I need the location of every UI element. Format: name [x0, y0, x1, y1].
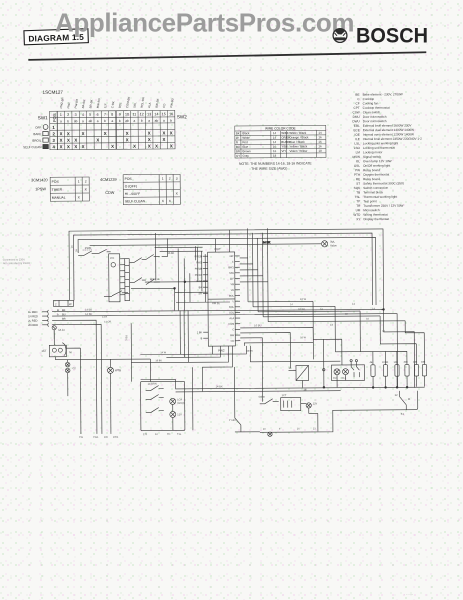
svg-text:OL: OL [356, 159, 360, 163]
wire drop 156 [155, 233, 157, 280]
svg-text:Test point: Test point [363, 199, 376, 203]
wire drop 168 [162, 238, 168, 256]
svg-text:POS: POS [125, 177, 133, 181]
svg-text:Black: Black [242, 131, 250, 135]
svg-text:PW2: PW2 [218, 349, 225, 353]
svg-text:b: b [170, 119, 172, 123]
svg-text:14 R: 14 R [102, 316, 107, 319]
svg-text:BR-BK: BR-BK [88, 99, 93, 108]
svg-text:16: 16 [318, 144, 322, 148]
selector switch table 1SCM127 [50, 110, 175, 149]
svg-text:CGM: CGM [228, 323, 234, 326]
clean switch table text [100, 177, 179, 204]
selector contacts top [130, 254, 160, 262]
svg-text:SELF CLEAN: SELF CLEAN [125, 199, 146, 203]
contact strip [125, 259, 130, 301]
svg-text:14 BU: 14 BU [85, 312, 92, 316]
svg-text:X: X [148, 131, 151, 136]
svg-text:Blue: Blue [242, 145, 248, 149]
wire mains row4 [68, 324, 102, 434]
svg-text:X: X [170, 143, 173, 148]
extra wire labels [102, 302, 386, 362]
svg-text:X: X [133, 144, 136, 149]
svg-text:WTB: WTB [115, 368, 121, 372]
svg-text:PW2B: PW2B [195, 255, 202, 258]
svg-text:4CM1239: 4CM1239 [100, 178, 116, 182]
svg-text:POS: POS [52, 113, 57, 122]
svg-text:2N RED: 2N RED [28, 323, 38, 327]
wire timer to drop [55, 348, 151, 435]
svg-text:10E: 10E [413, 361, 418, 364]
svg-text:Red: Red [242, 140, 248, 144]
svg-text:PTH: PTH [354, 173, 360, 177]
solenoid valve 3VL [321, 240, 337, 248]
Bosch logo (magneto armature symbol) [333, 28, 347, 42]
timer switch table 3CM1420 1PSW [50, 177, 89, 201]
fuse 1A [52, 326, 65, 340]
svg-text:a: a [82, 119, 84, 123]
svg-text:L: L [233, 300, 235, 303]
svg-text:2: 2 [169, 177, 171, 181]
svg-text:16: 16 [169, 112, 173, 116]
svg-text:X: X [155, 144, 158, 149]
svg-text:16: 16 [273, 149, 277, 153]
wire drop 234 [233, 367, 235, 412]
DIAGRAM 1.5 label box [24, 29, 88, 45]
svg-text:SOL: SOL [229, 311, 235, 314]
svg-text:X: X [148, 144, 151, 149]
svg-text:White / Black: White / Black [289, 131, 306, 135]
svg-text:BU: BU [236, 145, 240, 149]
svg-text:b: b [141, 119, 143, 123]
svg-text:X: X [74, 144, 77, 149]
svg-text:. .. ......: . .. ...... [404, 592, 413, 596]
BOSCH wordmark [356, 25, 428, 48]
svg-text:16: 16 [366, 318, 369, 321]
svg-text:a: a [148, 119, 150, 123]
svg-text:WIRE COLOR CODE: WIRE COLOR CODE [265, 126, 296, 130]
svg-text:16: 16 [273, 145, 277, 149]
svg-text:2L RED: 2L RED [28, 319, 37, 323]
svg-text:X: X [67, 144, 70, 149]
selector contacts mid [130, 277, 160, 284]
svg-text:13: 13 [313, 427, 316, 430]
svg-text:MW: MW [229, 272, 234, 275]
svg-text:14 BK: 14 BK [216, 384, 223, 388]
svg-text:16 BU: 16 BU [155, 359, 162, 362]
svg-text:SW2: SW2 [177, 114, 187, 119]
svg-text:CDW: CDW [105, 191, 115, 195]
svg-text:a: a [97, 119, 99, 123]
svg-text:X: X [60, 144, 63, 149]
svg-text:15: 15 [162, 112, 166, 116]
svg-text:SR: SR [198, 292, 202, 295]
svg-text:1TH: 1TH [110, 257, 115, 260]
svg-text:1A 1a: 1A 1a [58, 329, 65, 332]
svg-text:12V: 12V [177, 413, 182, 416]
svg-text:ROL: ROL [229, 306, 235, 309]
wire board top feed [216, 230, 230, 252]
svg-text:PW4: PW4 [196, 280, 202, 283]
svg-text:X: X [163, 137, 166, 142]
page corner mark [404, 588, 444, 596]
svg-text:TIMER: TIMER [52, 188, 63, 192]
svg-text:10E: 10E [421, 361, 426, 364]
svg-text:14: 14 [320, 308, 323, 311]
svg-text:1CT: 1CT [282, 394, 287, 397]
svg-text:Orange / Black: Orange / Black [289, 135, 309, 139]
svg-text:BU: BU [62, 313, 66, 316]
svg-text:3: 3 [75, 113, 77, 117]
svg-text:SW1: SW1 [38, 115, 48, 120]
svg-text:16 W: 16 W [300, 336, 306, 339]
svg-text:Switch connection: Switch connection [363, 186, 388, 190]
svg-text:14: 14 [273, 136, 277, 140]
svg-text:14: 14 [352, 302, 355, 306]
svg-text:VB: VB [231, 283, 235, 286]
svg-text:3 BU: 3 BU [124, 335, 128, 341]
svg-text:Y 12V: Y 12V [229, 418, 236, 422]
svg-text:Thermostat working light: Thermostat working light [363, 195, 397, 199]
svg-text:CD: CD [162, 103, 167, 108]
svg-text:XY: XY [356, 217, 360, 221]
svg-text:BOL: BOL [229, 295, 235, 298]
svg-text:PW2-BR: PW2-BR [59, 97, 65, 109]
svg-text:18: 18 [318, 149, 322, 153]
svg-text:14E: 14E [393, 361, 398, 364]
svg-text:14: 14 [290, 303, 293, 306]
svg-text:12: 12 [140, 112, 144, 116]
svg-text:X: X [74, 138, 77, 143]
svg-text:ab: ab [125, 119, 129, 123]
svg-text:1SW: 1SW [85, 246, 92, 250]
svg-text:SOL: SOL [132, 102, 137, 109]
contact lower [104, 291, 128, 297]
svg-text:W/BK 16: W/BK 16 [150, 278, 160, 281]
svg-text:Gray: Gray [242, 154, 249, 158]
svg-text:CD: CD [231, 340, 235, 343]
svg-text:LM: LM [356, 150, 361, 154]
wire selector bottom drops [180, 310, 188, 362]
svg-text:BW: BW [230, 334, 235, 337]
svg-text:13: 13 [147, 112, 151, 116]
switch CSW [259, 395, 279, 404]
svg-text:C: C [232, 261, 234, 264]
svg-text:14: 14 [273, 140, 277, 144]
svg-text:R: R [236, 140, 238, 144]
svg-text:X: X [162, 199, 165, 203]
svg-text:18: 18 [273, 154, 277, 158]
svg-text:BA-BR: BA-BR [81, 99, 86, 108]
svg-text:LSL: LSL [354, 141, 360, 145]
svg-text:Locking motor: Locking motor [363, 150, 382, 154]
svg-text:Terminal block: Terminal block [363, 190, 383, 194]
svg-text:ECE: ECE [353, 128, 359, 132]
note not controlled [3, 257, 31, 265]
svg-text:BOSCH: BOSCH [356, 25, 428, 48]
svg-text:X: X [169, 199, 172, 203]
svg-text:PW1B: PW1B [195, 268, 202, 271]
svg-text:W/BK: W/BK [281, 131, 288, 135]
lamp feed junction [322, 339, 345, 388]
svg-text:ab: ab [89, 119, 93, 123]
svg-text:2: 2 [52, 131, 55, 136]
svg-text:Not controlled by 1SW2: Not controlled by 1SW2 [3, 261, 31, 265]
svg-text:MANUAL: MANUAL [52, 196, 66, 200]
wire mains row2 [68, 310, 398, 390]
svg-text:3CM1420: 3CM1420 [31, 178, 47, 182]
svg-text:1: 1 [162, 177, 164, 181]
svg-text:ab: ab [155, 119, 159, 123]
svg-text:Microswitch: Microswitch [363, 208, 379, 212]
svg-text:X: X [111, 144, 114, 149]
wire drop 131 [124, 323, 131, 382]
svg-text:Yellow / Black: Yellow / Black [289, 144, 307, 148]
svg-text:2: 2 [67, 113, 69, 117]
svg-text:TH: TH [167, 433, 171, 436]
timer 1CT [41, 330, 71, 357]
svg-text:B: B [201, 337, 203, 340]
svg-text:CSW: CSW [352, 110, 359, 114]
svg-text:4E: 4E [369, 361, 372, 364]
svg-text:5: 5 [89, 113, 91, 117]
wire drop 150 [149, 359, 151, 381]
oven lamp box OL [331, 359, 364, 380]
svg-text:11F: 11F [230, 278, 235, 281]
svg-text:C2: C2 [72, 367, 76, 370]
door lock unit box [141, 381, 185, 430]
svg-text:16: 16 [318, 135, 322, 139]
wire mid horizontals [140, 342, 340, 362]
wire lattice to board [131, 246, 230, 311]
svg-text:b: b [104, 119, 106, 123]
wire bottom right outline [260, 391, 418, 433]
svg-text:GY: GY [236, 154, 240, 158]
svg-text:X: X [96, 138, 99, 143]
svg-text:TW: TW [79, 435, 84, 439]
svg-text:T1L: T1L [177, 433, 182, 436]
svg-text:NOTE: THE NUMBERS 14-16, 18-1: NOTE: THE NUMBERS 14-16, 18-16 INDICATE [239, 161, 312, 166]
svg-text:X: X [176, 192, 179, 196]
thermostat 1TH [109, 254, 125, 302]
svg-text:11: 11 [133, 112, 137, 116]
svg-text:14: 14 [154, 112, 158, 116]
lamp LCA [170, 398, 185, 405]
svg-text:BR: BR [236, 149, 240, 153]
svg-text:a: a [111, 119, 113, 123]
svg-text:1: 1 [78, 180, 80, 184]
relay RE [288, 365, 308, 391]
clean thermostat box [281, 394, 301, 411]
svg-text:CGM-BK: CGM-BK [125, 96, 131, 108]
svg-text:2E: 2E [304, 389, 307, 392]
svg-text:14: 14 [372, 306, 375, 310]
svg-text:AppliancePartsPros.com: AppliancePartsPros.com [55, 8, 354, 38]
svg-text:1W1: 1W1 [113, 435, 119, 439]
svg-text:1PSW: 1PSW [35, 187, 46, 191]
svg-text:RM 2E: RM 2E [212, 301, 220, 305]
svg-text:X: X [170, 130, 173, 135]
svg-text:OFF: OFF [35, 126, 41, 130]
svg-text:X: X [60, 138, 63, 143]
svg-text:C-BK: C-BK [110, 101, 115, 109]
svg-text:14 BK: 14 BK [85, 307, 92, 311]
control board PW2/OUT [195, 247, 241, 353]
switch contact 2 [99, 249, 111, 253]
svg-text:16 W: 16 W [300, 297, 307, 301]
svg-text:On/Off working light: On/Off working light [363, 164, 390, 168]
svg-text:X: X [162, 131, 165, 136]
svg-text:16: 16 [318, 140, 322, 144]
svg-text:1CT: 1CT [41, 349, 47, 353]
svg-text:6: 6 [97, 113, 99, 117]
svg-text:SQK: SQK [354, 186, 361, 190]
svg-text:14 BRN: 14 BRN [148, 382, 157, 386]
svg-text:Connected to 230V: Connected to 230V [3, 257, 26, 261]
wire left drop 110 [110, 373, 112, 433]
svg-text:14 OR: 14 OR [104, 320, 111, 323]
svg-text:8: 8 [111, 113, 113, 117]
svg-text:CSW: CSW [259, 395, 266, 399]
svg-text:POS: POS [52, 180, 60, 184]
svg-text:X: X [126, 131, 129, 136]
svg-text:16 BK: 16 BK [298, 307, 305, 311]
svg-text:14: 14 [273, 131, 277, 135]
svg-text:1W: 1W [104, 435, 108, 439]
svg-text:16: 16 [382, 330, 385, 333]
svg-text:O (OFF): O (OFF) [125, 184, 137, 188]
lamp C2 pair [65, 360, 76, 397]
svg-text:PW1: PW1 [66, 102, 71, 109]
wire mains row1 [68, 305, 384, 312]
lamp WTB [107, 359, 121, 373]
wire drop 192 [191, 367, 193, 430]
svg-text:X: X [67, 131, 70, 136]
wire bottom mid labels [263, 427, 316, 430]
svg-text:3: 3 [176, 177, 178, 181]
door box pin labels [143, 433, 182, 436]
svg-text:11: 11 [408, 398, 411, 401]
svg-text:THE WIRE SIZE (AWG): THE WIRE SIZE (AWG) [251, 167, 287, 171]
svg-text:14: 14 [71, 245, 74, 248]
svg-text:BK: BK [62, 309, 66, 312]
svg-text:TB: TB [356, 190, 360, 194]
svg-text:16 BU: 16 BU [254, 323, 261, 327]
svg-text:9: 9 [279, 428, 281, 431]
svg-text:X: X [148, 137, 151, 142]
svg-text:a: a [163, 119, 165, 123]
svg-text:2: 2 [55, 302, 57, 306]
svg-text:PW2: PW2 [196, 261, 202, 264]
svg-text:CPT: CPT [353, 106, 359, 110]
wire board lower fanout [240, 327, 314, 402]
heater resistors bank [369, 361, 426, 387]
svg-text:16: 16 [297, 428, 300, 431]
terminal block TB mains rows [28, 309, 68, 327]
svg-text:1: 1 [60, 113, 62, 117]
svg-text:W: W [69, 302, 72, 306]
svg-text:3: 3 [52, 138, 55, 143]
svg-text:OSL: OSL [354, 164, 360, 168]
timer table text [31, 178, 88, 200]
svg-text:White: White [242, 136, 250, 140]
lamp 12V [170, 411, 182, 417]
wire top bus inner [78, 237, 376, 307]
svg-text:VA: VA [231, 289, 235, 292]
svg-text:16 BK: 16 BK [246, 350, 253, 353]
svg-text:12: 12 [155, 433, 158, 436]
svg-text:MW-BU: MW-BU [96, 98, 102, 109]
svg-text:V/Y: V/Y [281, 149, 286, 153]
svg-text:DWU: DWU [352, 119, 359, 123]
svg-text:12V: 12V [313, 402, 318, 405]
svg-text:11F: 11F [103, 103, 108, 109]
svg-text:W: W [236, 136, 239, 140]
svg-text:(lamp): (lamp) [177, 402, 184, 405]
lamp bottom small [268, 432, 272, 436]
svg-text:170: 170 [143, 433, 148, 436]
watermark AppliancePartsPros.com [55, 8, 354, 38]
svg-text:12: 12 [395, 394, 398, 397]
svg-text:14: 14 [318, 131, 322, 135]
svg-text:X: X [85, 187, 88, 191]
svg-text:ab: ab [74, 119, 78, 123]
svg-text:TW1: TW1 [93, 435, 99, 439]
svg-text:X: X [82, 131, 85, 136]
wire bottom bus pair [141, 378, 425, 392]
wire board bottom drops [131, 346, 232, 392]
svg-text:1: 1 [52, 125, 55, 130]
svg-text:X: X [82, 144, 85, 149]
svg-text:PW-BU: PW-BU [169, 98, 175, 108]
svg-text:9: 9 [119, 113, 121, 117]
svg-text:Valve: Valve [330, 243, 337, 247]
wire labels fanout [254, 296, 376, 327]
svg-text:2: 2 [85, 179, 87, 183]
svg-text:BW-BK: BW-BK [154, 98, 160, 108]
svg-text:BAKE: BAKE [33, 132, 41, 136]
svg-text:14 BK: 14 BK [263, 240, 271, 244]
svg-text:PW-BR: PW-BR [74, 99, 80, 109]
svg-text:··: ·· [442, 588, 444, 592]
svg-text:Cooktop thermostat: Cooktop thermostat [363, 106, 390, 110]
svg-text:X: X [60, 131, 63, 136]
svg-text:Blue / Black: Blue / Black [289, 140, 305, 144]
svg-text:BR: BR [62, 318, 66, 321]
svg-text:X: X [126, 137, 129, 142]
svg-text:Bake element - 230V, 2700W: Bake element - 230V, 2700W [363, 92, 403, 96]
svg-text:K1: K1 [401, 413, 405, 416]
clean switch table 4CM1239 CDW [123, 174, 180, 204]
svg-text:BOL: BOL [118, 102, 123, 109]
wire mains row3 [68, 320, 97, 434]
svg-text:C: C [232, 328, 234, 331]
wire color code table [235, 125, 326, 158]
svg-text:a: a [134, 119, 136, 123]
svg-text:7: 7 [104, 113, 106, 117]
table 1SCM127 side labels and row icons [23, 89, 188, 149]
wire top bus middle [74, 233, 373, 307]
svg-text:10.6E: 10.6E [382, 361, 389, 364]
svg-text:24F: 24F [229, 255, 234, 258]
svg-text:1L RED: 1L RED [28, 310, 37, 314]
wire top bus outer [69, 229, 415, 390]
svg-text:SELF CLEAN: SELF CLEAN [23, 145, 41, 149]
switch 1SW [78, 246, 99, 256]
wire color code table text [236, 126, 322, 158]
svg-text:BK: BK [236, 131, 240, 135]
svg-text:X: X [78, 196, 81, 200]
